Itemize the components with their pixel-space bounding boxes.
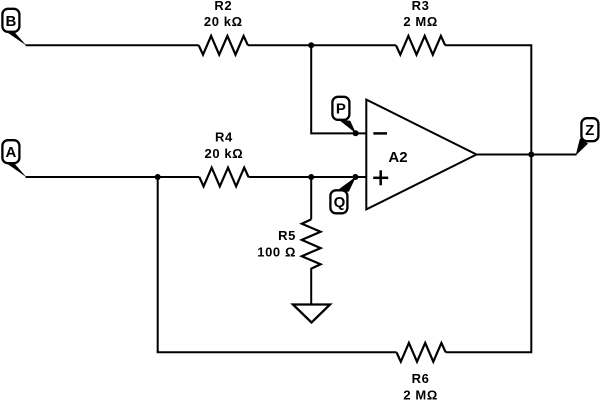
left feedback wire down	[157, 177, 159, 352]
node P	[332, 97, 356, 134]
output junction	[528, 152, 534, 158]
svg-text:A: A	[5, 144, 16, 161]
bottom wire to R6	[157, 351, 397, 353]
junction R5 tap	[308, 174, 314, 180]
svg-text:Z: Z	[585, 122, 594, 139]
wire B to R2	[26, 44, 199, 46]
node A	[2, 140, 26, 177]
junction A / feedback	[155, 174, 161, 180]
wire R2 to R3	[248, 44, 396, 46]
svg-text:100 Ω: 100 Ω	[257, 245, 296, 260]
svg-text:2 MΩ: 2 MΩ	[403, 14, 438, 29]
node Q	[330, 177, 356, 214]
svg-text:R2: R2	[214, 0, 232, 13]
wire R4 to non-inverting input	[249, 176, 367, 178]
resistor R5	[302, 219, 321, 268]
node B	[2, 9, 26, 46]
resistor R2	[199, 36, 248, 55]
resistor R4	[199, 168, 248, 187]
svg-text:R5: R5	[278, 228, 296, 243]
P anchor dot	[353, 130, 359, 136]
output wire	[477, 154, 577, 156]
svg-text:Q: Q	[334, 194, 346, 211]
node Z	[576, 118, 599, 155]
op-amp A2	[366, 100, 476, 210]
svg-text:20 kΩ: 20 kΩ	[204, 14, 243, 29]
svg-text:B: B	[5, 13, 16, 30]
resistor R6	[397, 343, 446, 362]
wire to R5	[310, 177, 312, 219]
resistor R3	[396, 36, 445, 55]
Q anchor dot	[352, 174, 358, 180]
svg-text:P: P	[336, 101, 346, 118]
svg-text:A2: A2	[388, 149, 407, 166]
svg-text:R3: R3	[412, 0, 430, 13]
bottom wire R6 to right corner up	[446, 155, 532, 353]
wire R3 to right corner, down to output node	[445, 45, 531, 154]
junction top (to inverting input)	[308, 42, 314, 48]
svg-text:2 MΩ: 2 MΩ	[403, 388, 438, 401]
ground	[293, 305, 330, 323]
wire A to R4	[26, 176, 200, 178]
svg-text:20 kΩ: 20 kΩ	[205, 146, 244, 161]
wire from top junction down to inverting input	[311, 45, 366, 133]
svg-text:R6: R6	[412, 371, 430, 386]
wire R5 to ground	[310, 268, 312, 305]
svg-text:R4: R4	[215, 130, 233, 145]
